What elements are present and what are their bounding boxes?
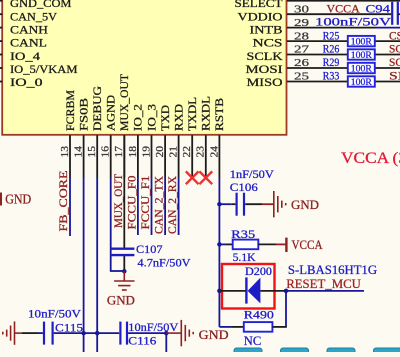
no-connect X on pin 23 RXDL [199, 171, 212, 184]
svg-text:100nF/50V: 100nF/50V [315, 14, 391, 28]
R35 right pin [258, 243, 276, 245]
junction C106 [217, 202, 222, 207]
wire C115 to C116 [54, 332, 120, 334]
svg-text:14: 14 [74, 145, 85, 157]
svg-text:GND: GND [5, 191, 31, 206]
svg-text:R35: R35 [231, 227, 255, 241]
ground right of C116 [181, 320, 193, 346]
svg-text:RESET_MCU: RESET_MCU [286, 276, 361, 291]
svg-text:25: 25 [294, 71, 310, 83]
svg-text:CS: CS [389, 30, 400, 42]
wire pin 28 [287, 40, 348, 42]
wire pin 18 [137, 178, 139, 236]
wire RSTB (pin 24) down [218, 178, 220, 327]
wire pin 19 [151, 178, 153, 236]
wire to C115 [22, 332, 38, 334]
resistor R26 100R [348, 49, 375, 59]
svg-text:RXD: RXD [173, 104, 185, 131]
svg-text:IO_2: IO_2 [133, 104, 145, 131]
pin stub left CANL [0, 40, 2, 42]
wire pin 27 [287, 54, 348, 56]
diode D200 S-LBAS16HT1G [245, 277, 247, 303]
svg-text:SELECT: SELECT [235, 0, 283, 10]
svg-text:D200: D200 [245, 264, 272, 278]
cyan port boxes along bottom edge (cropped) [234, 348, 262, 356]
wire pin24 elbow to R490 [219, 326, 232, 328]
pin stub left IO_0 [0, 81, 2, 83]
svg-text:29: 29 [294, 17, 310, 29]
capacitor C115 10nF/50V [44, 322, 53, 345]
svg-text:16: 16 [101, 146, 112, 158]
svg-text:100R: 100R [351, 37, 372, 48]
svg-text:CANH: CANH [10, 24, 48, 36]
svg-text:GND_COM: GND_COM [10, 0, 72, 10]
svg-text:VDDIO: VDDIO [238, 11, 283, 23]
wire pin 15 to bottom rail [96, 178, 98, 353]
wire to VCCA bar [276, 243, 285, 245]
C106 right pin [245, 203, 262, 205]
svg-text:18: 18 [128, 146, 139, 158]
pin stub bottom 16 AGND [110, 135, 112, 177]
C106 left pin [232, 203, 236, 205]
svg-text:CAN_5V: CAN_5V [10, 11, 58, 23]
resistor R25 100R [348, 36, 375, 46]
svg-text:CANL: CANL [10, 38, 47, 50]
svg-text:DEBUG: DEBUG [92, 86, 104, 131]
svg-text:GND: GND [107, 294, 135, 308]
pin stub bottom 24 RSTB [218, 135, 220, 177]
R490 right pin [272, 326, 286, 328]
svg-text:26: 26 [294, 57, 310, 69]
svg-text:RXDL: RXDL [201, 96, 213, 131]
svg-text:IO_0: IO_0 [10, 77, 43, 89]
svg-text:R490: R490 [244, 308, 274, 322]
wire to C115 blue [38, 332, 43, 334]
wire junction down (cropped) [165, 333, 167, 352]
svg-text:10nF/50V: 10nF/50V [128, 320, 178, 334]
svg-text:VCCA (3: VCCA (3 [341, 150, 400, 167]
pin stub bottom 22 TXDL [191, 135, 193, 177]
wire pin 29 blue part [376, 27, 400, 29]
svg-text:100R: 100R [351, 50, 372, 61]
svg-text:CAN_2_TX: CAN_2_TX [152, 176, 166, 234]
ground stem bottom-right [166, 332, 180, 334]
svg-text:GND: GND [291, 198, 319, 212]
wire C94 right stub [398, 13, 400, 15]
IC U200 system-basis-chip body (top cropped) [2, 0, 286, 135]
svg-text:28: 28 [294, 30, 310, 42]
svg-text:1nF/50V: 1nF/50V [230, 167, 274, 181]
wire C116 to junction [128, 332, 166, 334]
wire pin 26 [287, 67, 348, 69]
capacitor C106 1nF/50V [237, 193, 244, 216]
ground below C107 [114, 281, 134, 290]
wire AGND (pin 16) down [110, 178, 112, 272]
svg-text:FS0B: FS0B [78, 98, 90, 131]
svg-text:IO_3: IO_3 [146, 104, 158, 131]
pin stub bottom 18 IO_2 [137, 135, 139, 177]
wire pin 21 [178, 178, 180, 236]
pin stub bottom 15 DEBUG [96, 135, 98, 177]
junction R35 [217, 242, 222, 247]
no-connect X on pin 22 TXDL [186, 171, 199, 184]
svg-text:20: 20 [155, 146, 166, 158]
svg-text:23: 23 [196, 146, 207, 158]
svg-text:S-LBAS16HT1G: S-LBAS16HT1G [288, 262, 377, 277]
svg-text:NC: NC [244, 334, 261, 348]
pin stub bottom 19 IO_3 [151, 135, 153, 177]
wire to R35 [219, 243, 226, 245]
ground right of C106 [274, 191, 286, 217]
svg-text:21: 21 [169, 146, 180, 158]
svg-text:SC: SC [389, 57, 400, 69]
svg-text:C115: C115 [55, 321, 83, 335]
wire FB_CORE (pin 13) [69, 178, 71, 237]
wire C107 to ground node [123, 256, 125, 271]
svg-text:C94: C94 [366, 1, 391, 15]
pin stub left IO_5/VKAM [0, 67, 2, 69]
wire AGND elbow to C107 node [110, 270, 124, 272]
pin stub bottom 20 TXD [164, 135, 166, 177]
capacitor C116 10nF/50V [120, 322, 127, 345]
svg-text:TXDL: TXDL [187, 97, 199, 131]
wire down to R490 [285, 291, 287, 327]
resistor R35 5.1K [233, 240, 259, 250]
svg-text:IO_4: IO_4 [10, 51, 40, 63]
R35 left pin [226, 243, 233, 245]
svg-text:FB_CORE: FB_CORE [56, 171, 70, 232]
junction diode cathode / pin24 net [217, 289, 222, 294]
svg-text:CAN_2_RX: CAN_2_RX [165, 176, 179, 234]
wire diode anode to junction [260, 290, 285, 292]
capacitor C94 100nF/50V [392, 2, 398, 25]
svg-text:19: 19 [141, 146, 152, 158]
wire pin 27 right [375, 54, 400, 56]
svg-text:INTB: INTB [250, 24, 283, 36]
junction pin15 wire / rail [95, 331, 100, 336]
svg-text:100R: 100R [351, 77, 372, 88]
wire pin 28 right [375, 40, 400, 42]
wire to ground [262, 203, 273, 205]
svg-text:13: 13 [60, 146, 71, 158]
wire to C106 [219, 203, 231, 205]
svg-text:15: 15 [87, 146, 98, 158]
wire pin 26 right [375, 67, 400, 69]
svg-text:27: 27 [294, 44, 310, 56]
svg-text:MUX_OUT: MUX_OUT [119, 74, 131, 131]
wire pin 29 [287, 27, 376, 29]
svg-text:SC: SC [389, 44, 400, 56]
junction AGND/C107 [122, 269, 127, 274]
capacitor C107 [110, 249, 134, 255]
svg-text:FCCU_F0: FCCU_F0 [125, 176, 139, 230]
R490 left pin [232, 326, 244, 328]
highlight box around D200 [222, 264, 275, 309]
svg-text:FCRBM: FCRBM [65, 90, 77, 131]
wire pin 30 VDDIO to C94 [287, 13, 391, 15]
junction pin14 wire / rail [81, 331, 86, 336]
ground symbol left edge (cropped sliver) [0, 193, 2, 206]
resistor R33 100R [348, 76, 375, 86]
power port VCCA bar [285, 238, 287, 252]
svg-text:AGND: AGND [106, 95, 118, 131]
pin stub left IO_4 [0, 54, 2, 56]
svg-text:MUX_OUT: MUX_OUT [111, 173, 125, 228]
ground bottom-left (cropped) [3, 321, 15, 344]
svg-text:C116: C116 [128, 334, 156, 348]
svg-text:22: 22 [182, 146, 193, 158]
resistor R29 100R [348, 63, 375, 73]
junction RESET_MCU [284, 289, 289, 294]
ground stem bottom-left [15, 332, 23, 334]
svg-text:R26: R26 [323, 44, 340, 56]
svg-text:MISO: MISO [247, 77, 283, 89]
resistor R490 [244, 322, 273, 332]
pin stub bottom 14 FS0B [83, 135, 85, 177]
svg-text:10nF/50V: 10nF/50V [28, 307, 81, 321]
svg-text:R33: R33 [323, 71, 340, 83]
wire pin 25 [287, 81, 348, 83]
svg-text:FCCU_F1: FCCU_F1 [138, 176, 152, 230]
junction below C116 [164, 331, 169, 336]
svg-text:5.1K: 5.1K [233, 250, 256, 264]
svg-text:4.7nF/50V: 4.7nF/50V [138, 256, 191, 270]
svg-text:SI: SI [389, 71, 400, 83]
svg-text:MOSI: MOSI [246, 64, 283, 76]
svg-text:R29: R29 [323, 57, 340, 69]
svg-text:NCS: NCS [253, 38, 283, 50]
svg-text:R25: R25 [323, 30, 340, 42]
wire pin 14 to bottom rail [83, 178, 85, 353]
svg-text:TXD: TXD [160, 105, 172, 131]
wire RESET_MCU [286, 290, 364, 292]
wire to diode cathode [219, 290, 246, 292]
wire SELECT pin (top, cropped) [287, 0, 400, 2]
wire MUX_OUT (pin 17) to C107 [123, 135, 125, 248]
pin stub left CAN_5V [0, 13, 2, 15]
pin stub bottom 23 RXDL [205, 135, 207, 177]
wire pin 25 right [375, 81, 400, 83]
svg-text:SCLK: SCLK [247, 51, 284, 63]
wire pin 20 [164, 178, 166, 236]
pin stub bottom 13 FCRBM [69, 135, 71, 177]
svg-text:GND: GND [199, 327, 229, 342]
pin stub bottom 21 RXD [178, 135, 180, 177]
svg-text:30: 30 [294, 3, 310, 15]
ground stem [123, 271, 125, 281]
svg-text:100R: 100R [351, 64, 372, 75]
svg-text:C106: C106 [230, 180, 258, 194]
svg-text:RSTB: RSTB [214, 98, 226, 131]
svg-text:IO_5/VKAM: IO_5/VKAM [10, 64, 78, 76]
svg-text:C107: C107 [136, 242, 163, 256]
svg-text:VCCA: VCCA [292, 237, 324, 252]
pin stub bottom 17 MUX_OUT [123, 135, 125, 177]
pin stub left GND_COM [0, 0, 2, 2]
svg-text:24: 24 [209, 145, 220, 157]
pin stub left CANH [0, 27, 2, 29]
